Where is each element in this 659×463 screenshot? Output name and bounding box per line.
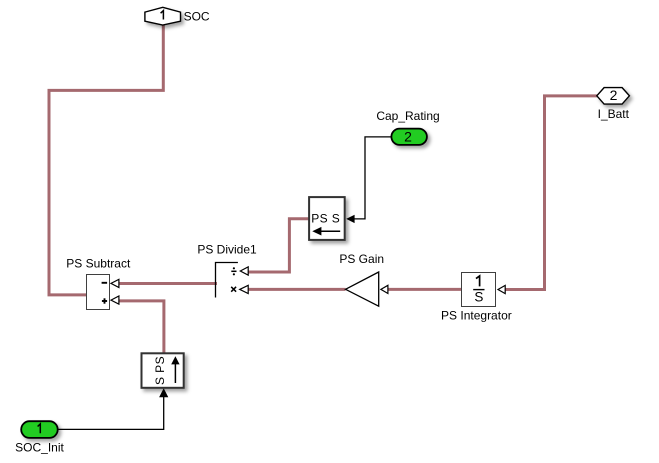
svg-text:SOC: SOC bbox=[184, 10, 210, 24]
svg-text:PS S: PS S bbox=[311, 212, 340, 226]
svg-text:PS Subtract: PS Subtract bbox=[66, 257, 131, 271]
svg-text:SOC_Init: SOC_Init bbox=[15, 440, 64, 454]
svg-text:2: 2 bbox=[610, 87, 618, 103]
svg-text:I_Batt: I_Batt bbox=[598, 107, 630, 121]
svg-text:PS Divide1: PS Divide1 bbox=[197, 243, 257, 257]
svg-text:Cap_Rating: Cap_Rating bbox=[376, 109, 439, 123]
svg-text:S PS: S PS bbox=[153, 356, 167, 385]
svg-text:PS Integrator: PS Integrator bbox=[441, 308, 512, 322]
svg-text:PS Gain: PS Gain bbox=[339, 252, 384, 266]
svg-text:S: S bbox=[474, 289, 483, 304]
svg-text:2: 2 bbox=[404, 129, 412, 145]
